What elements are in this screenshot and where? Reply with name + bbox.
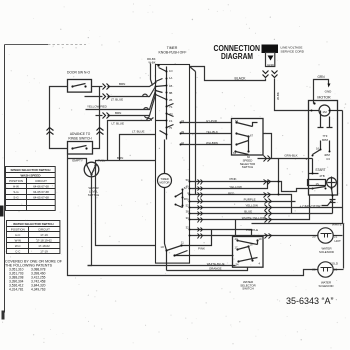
svg-text:17-19: 17-19 <box>40 250 48 254</box>
svg-text:49: 49 <box>186 185 189 189</box>
svg-text:S-G: S-G <box>13 196 19 200</box>
svg-text:WASH SPEED: WASH SPEED <box>20 174 41 178</box>
svg-text:COLD: COLD <box>330 262 339 266</box>
svg-text:7S: 7S <box>169 105 172 109</box>
svg-text:34: 34 <box>236 263 239 267</box>
svg-text:BRN: BRN <box>119 82 125 86</box>
svg-text:RINSE SWITCH: RINSE SWITCH <box>68 137 92 141</box>
svg-text:21: 21 <box>334 267 338 271</box>
svg-text:KNOB-PUSH OFF: KNOB-PUSH OFF <box>159 51 187 55</box>
svg-text:2B: 2B <box>169 98 172 102</box>
svg-text:LT. BLUE: LT. BLUE <box>112 121 124 125</box>
svg-text:64: 64 <box>235 119 238 123</box>
svg-text:PURPLE: PURPLE <box>244 197 256 201</box>
svg-text:49: 49 <box>181 130 184 134</box>
svg-text:WH-BRN: WH-BRN <box>206 141 218 145</box>
svg-text:C3: C3 <box>326 157 330 161</box>
svg-text:DOOR SW N-O: DOOR SW N-O <box>67 71 91 75</box>
svg-text:W-W: W-W <box>15 239 22 243</box>
svg-text:20: 20 <box>312 267 316 271</box>
svg-text:75: 75 <box>169 126 172 130</box>
svg-text:8B: 8B <box>169 91 172 95</box>
svg-text:1B: 1B <box>169 84 172 88</box>
svg-text:YELLOW-RED: YELLOW-RED <box>87 105 108 109</box>
svg-text:PINK: PINK <box>198 247 205 251</box>
svg-text:MOTOR: MOTOR <box>160 181 170 185</box>
svg-text:64-65 67-68: 64-65 67-68 <box>33 196 49 200</box>
svg-text:POSITION: POSITION <box>11 228 25 232</box>
svg-text:SWITCH: SWITCH <box>242 287 253 291</box>
svg-text:SERVICE CORD: SERVICE CORD <box>281 49 305 53</box>
svg-text:W-BK: W-BK <box>149 61 156 65</box>
svg-text:W-BK: W-BK <box>276 92 280 100</box>
svg-text:C-C: C-C <box>15 250 20 254</box>
svg-text:21: 21 <box>334 234 338 238</box>
svg-text:50: 50 <box>186 178 189 182</box>
svg-text:S-G: S-G <box>13 190 19 194</box>
svg-text:38: 38 <box>186 210 189 214</box>
svg-text:64-66 67-68: 64-66 67-68 <box>33 185 49 189</box>
svg-text:35-6343 “A”: 35-6343 “A” <box>286 296 334 307</box>
svg-text:PINK: PINK <box>230 177 237 181</box>
svg-text:LT. BLUE: LT. BLUE <box>111 97 123 101</box>
svg-text:61: 61 <box>233 151 236 155</box>
svg-text:1O: 1O <box>169 69 173 73</box>
svg-text:52: 52 <box>186 204 189 208</box>
svg-text:BRN: BRN <box>117 156 123 160</box>
svg-text:GRN: GRN <box>317 75 325 79</box>
svg-text:4,314,781: 4,314,781 <box>9 288 24 292</box>
svg-text:H-W: H-W <box>13 185 19 189</box>
svg-text:START: START <box>315 168 325 172</box>
svg-text:1S: 1S <box>169 119 172 123</box>
svg-text:BRN: BRN <box>115 111 121 115</box>
svg-text:1A: 1A <box>169 76 172 80</box>
svg-text:HOT: HOT <box>335 239 342 243</box>
svg-text:43: 43 <box>235 237 238 241</box>
svg-text:LT. BLUE: LT. BLUE <box>132 130 144 134</box>
svg-text:18: 18 <box>250 243 253 247</box>
svg-text:1S: 1S <box>316 182 320 186</box>
svg-text:17-18 19-62: 17-18 19-62 <box>36 239 52 243</box>
svg-text:RD-BK: RD-BK <box>147 57 156 61</box>
svg-text:1O: 1O <box>160 245 164 249</box>
svg-text:P: P <box>93 169 95 173</box>
svg-text:2TB: 2TB <box>320 174 325 178</box>
svg-text:SWITCH: SWITCH <box>88 193 99 197</box>
svg-text:42: 42 <box>181 141 184 145</box>
svg-text:MOTOR: MOTOR <box>317 96 331 100</box>
svg-text:GND: GND <box>267 63 275 67</box>
svg-text:67: 67 <box>250 134 253 138</box>
svg-text:GRN-BLK: GRN-BLK <box>284 154 297 158</box>
svg-text:19: 19 <box>259 237 262 241</box>
svg-text:SOLENOID: SOLENOID <box>319 250 334 254</box>
svg-text:DIAGRAM: DIAGRAM <box>221 51 253 61</box>
svg-text:YELLOW: YELLOW <box>245 204 258 208</box>
svg-text:SWITCH: SWITCH <box>242 165 253 169</box>
svg-text:RED: RED <box>228 191 235 195</box>
svg-text:TIMER: TIMER <box>167 46 178 50</box>
svg-text:30: 30 <box>186 216 189 220</box>
svg-text:POSITION: POSITION <box>9 179 23 183</box>
svg-text:PURPLE: PURPLE <box>246 228 258 232</box>
svg-text:CIRCUIT: CIRCUIT <box>35 179 47 183</box>
svg-text:YELLOW: YELLOW <box>229 185 242 189</box>
svg-text:4,349,763: 4,349,763 <box>31 288 46 292</box>
svg-text:17: 17 <box>235 246 238 250</box>
svg-text:SPEED SELECTOR SWITCH: SPEED SELECTOR SWITCH <box>11 168 51 172</box>
svg-text:2O: 2O <box>169 112 173 116</box>
svg-text:H-C: H-C <box>15 233 20 237</box>
svg-text:8PM: 8PM <box>322 138 329 142</box>
svg-text:ORANGE: ORANGE <box>209 266 222 270</box>
svg-text:SOLENOID: SOLENOID <box>319 284 334 288</box>
svg-text:17-18-62: 17-18-62 <box>38 244 50 248</box>
svg-text:WHITE: WHITE <box>332 223 342 227</box>
svg-text:CIRCUIT: CIRCUIT <box>38 228 50 232</box>
svg-text:43: 43 <box>181 119 184 123</box>
svg-text:WHITE-YELLOW: WHITE-YELLOW <box>242 216 265 220</box>
svg-text:16: 16 <box>316 147 320 151</box>
svg-text:BLACK: BLACK <box>234 77 246 81</box>
svg-text:17-19: 17-19 <box>40 233 48 237</box>
svg-text:GY-PUR: GY-PUR <box>206 119 217 123</box>
svg-text:GND: GND <box>325 90 333 94</box>
svg-text:64-65 67-68: 64-65 67-68 <box>33 190 49 194</box>
svg-text:TIMER: TIMER <box>160 177 168 181</box>
svg-text:W-C: W-C <box>15 244 21 248</box>
svg-text:ADVANCE TO: ADVANCE TO <box>70 132 91 136</box>
svg-text:BLUE: BLUE <box>244 210 252 214</box>
svg-text:1M: 1M <box>322 110 327 114</box>
svg-text:WATER SELECTOR SWITCH: WATER SELECTOR SWITCH <box>13 222 53 226</box>
svg-text:32: 32 <box>186 226 189 230</box>
svg-text:YEL-BLK: YEL-BLK <box>206 130 218 134</box>
